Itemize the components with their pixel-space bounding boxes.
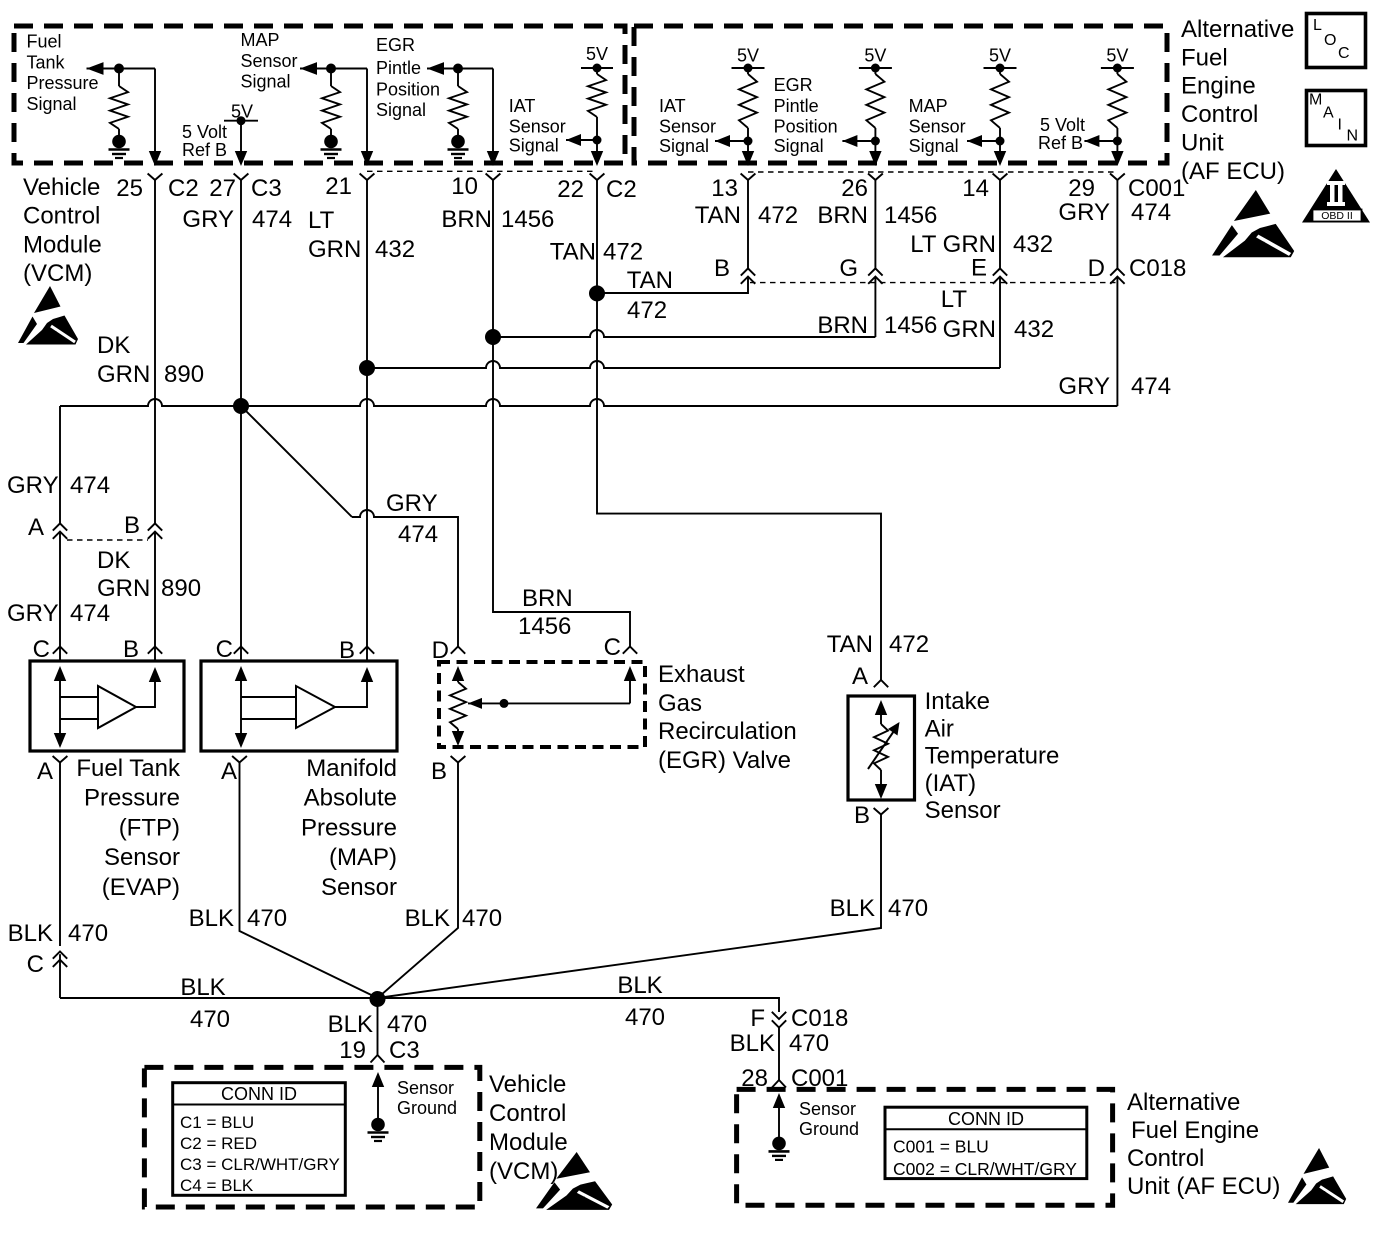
svg-text:Control: Control	[1181, 101, 1258, 128]
svg-text:Vehicle: Vehicle	[23, 174, 100, 201]
node GRY bus junction	[233, 398, 249, 414]
wire GRY bus left end down to inline connector A	[59, 406, 61, 523]
svg-text:A: A	[852, 663, 868, 690]
svg-text:TAN: TAN	[827, 631, 873, 658]
wire GRY diagonal from bus to EGR valve pin D (hop at 367)	[241, 406, 352, 517]
EGR valve dashed box	[439, 662, 645, 747]
svg-text:BRN: BRN	[817, 202, 868, 229]
svg-text:BLK: BLK	[730, 1030, 775, 1057]
AF ECU internal circuitry box (top)	[634, 26, 1167, 163]
svg-text:Position: Position	[774, 117, 838, 137]
node TAN branch	[589, 285, 605, 301]
ESD symbol (AF ECU bottom)	[1288, 1148, 1346, 1204]
svg-text:E: E	[971, 255, 987, 282]
svg-text:470: 470	[462, 905, 502, 932]
svg-text:27: 27	[209, 175, 236, 202]
wire: MAP signal down to pin 21	[366, 69, 368, 153]
svg-text:C2 = RED: C2 = RED	[180, 1134, 257, 1153]
ground (MAP resistor)	[324, 135, 338, 149]
VCM bottom dashed box	[144, 1067, 479, 1207]
svg-text:Sensor: Sensor	[321, 874, 397, 901]
svg-text:1456: 1456	[884, 312, 937, 339]
resistor: FTP pull-down	[118, 69, 120, 87]
FTP signal arrow into VCM	[87, 62, 104, 75]
wire GRY connector A to FTP pin C	[59, 532, 61, 661]
svg-text:472: 472	[889, 631, 929, 658]
svg-text:474: 474	[252, 206, 292, 233]
LOC legend box	[1307, 14, 1366, 68]
wire AF ECU 29 to connector D	[1116, 180, 1118, 269]
svg-text:Sensor: Sensor	[104, 844, 180, 871]
wire LT GRN from node to connector E (hops at 493,597)	[999, 277, 1001, 368]
lambda connector 19/C3	[371, 1055, 385, 1063]
svg-text:C3 = CLR/WHT/GRY: C3 = CLR/WHT/GRY	[180, 1155, 340, 1174]
FTP internal: down arrow to pin A	[59, 719, 61, 734]
svg-text:1456: 1456	[518, 613, 571, 640]
svg-text:Sensor: Sensor	[925, 797, 1001, 824]
svg-text:Ref B: Ref B	[182, 140, 227, 160]
svg-text:470: 470	[789, 1030, 829, 1057]
svg-text:B: B	[714, 255, 730, 282]
svg-text:474: 474	[1131, 373, 1171, 400]
svg-text:5V: 5V	[989, 45, 1011, 65]
svg-text:A: A	[221, 758, 237, 785]
svg-text:474: 474	[398, 521, 438, 548]
main GRY 474 bus from x=60 to connector D (hops at 155,367,493,597)	[1116, 277, 1118, 406]
svg-text:Signal: Signal	[909, 136, 959, 156]
wire 10/BRN down	[492, 180, 494, 338]
svg-text:Sensor: Sensor	[397, 1078, 454, 1098]
svg-text:Sensor: Sensor	[659, 117, 716, 137]
FTP internal: op-amp	[98, 686, 136, 728]
svg-text:MAP: MAP	[909, 96, 948, 116]
ground (FTP resistor)	[112, 135, 126, 149]
svg-text:GRN: GRN	[97, 575, 150, 602]
svg-text:GRY: GRY	[7, 600, 59, 627]
svg-text:Sensor: Sensor	[799, 1099, 856, 1119]
IAT internal: thermistor	[875, 700, 887, 715]
svg-text:470: 470	[247, 905, 287, 932]
wire FTP pin A down	[59, 763, 61, 947]
wire BRN below branch, over to EGR pin C	[493, 337, 630, 647]
svg-text:Alternative: Alternative	[1181, 16, 1294, 43]
svg-text:26: 26	[841, 175, 868, 202]
svg-text:Position: Position	[376, 79, 440, 99]
IAT sensor box	[848, 696, 915, 800]
svg-text:472: 472	[758, 202, 798, 229]
svg-text:BRN: BRN	[522, 585, 573, 612]
svg-text:(FTP): (FTP)	[119, 814, 180, 841]
wire TAN from node to connector B	[597, 277, 748, 293]
svg-text:L: L	[1313, 17, 1322, 34]
FTP sensor box	[30, 661, 184, 751]
svg-text:Signal: Signal	[774, 136, 824, 156]
svg-text:C4 = BLK: C4 = BLK	[180, 1176, 254, 1195]
CONN ID table (VCM)	[173, 1083, 346, 1196]
svg-text:19: 19	[339, 1037, 366, 1064]
svg-text:Fuel Engine: Fuel Engine	[1131, 1117, 1259, 1144]
svg-text:C: C	[33, 636, 50, 663]
node: MAP pull-down junction	[326, 64, 336, 74]
MAP internal: op-amp	[296, 686, 335, 728]
svg-text:C: C	[1338, 45, 1350, 62]
svg-text:A: A	[37, 758, 53, 785]
svg-text:(AF ECU): (AF ECU)	[1181, 158, 1285, 185]
bus continues right to AF ECU	[378, 998, 780, 1012]
svg-text:Signal: Signal	[659, 136, 709, 156]
svg-text:DK: DK	[97, 332, 130, 359]
svg-text:Manifold: Manifold	[306, 755, 397, 782]
svg-text:432: 432	[1014, 316, 1054, 343]
svg-text:GRY: GRY	[1058, 199, 1110, 226]
svg-text:GRN: GRN	[308, 236, 361, 263]
resistor: IAT pull-up	[596, 68, 598, 74]
svg-text:BLK: BLK	[405, 905, 450, 932]
wire 22/TAN down	[596, 180, 598, 294]
FTP internal: output to pin B	[136, 681, 155, 707]
svg-text:Sensor: Sensor	[909, 117, 966, 137]
svg-text:Air: Air	[925, 715, 954, 742]
MAP internal: pin C input w/ up arrow	[235, 666, 247, 681]
svg-text:A: A	[1323, 105, 1334, 122]
wire 21/LT GRN down	[366, 180, 368, 369]
svg-text:B: B	[123, 636, 139, 663]
svg-text:Intake: Intake	[925, 688, 990, 715]
VCM internal circuitry box (top)	[14, 26, 625, 163]
svg-text:BLK: BLK	[617, 972, 662, 999]
svg-text:LT: LT	[308, 207, 335, 234]
resistor: EGR pull-down	[457, 69, 459, 87]
svg-text:Unit (AF ECU): Unit (AF ECU)	[1127, 1173, 1280, 1200]
wire IAT pin B down to junction	[378, 815, 882, 999]
svg-text:470: 470	[190, 1006, 230, 1033]
svg-text:CONN ID: CONN ID	[221, 1084, 297, 1104]
svg-text:D: D	[432, 637, 449, 664]
node: ground junction	[370, 991, 386, 1007]
svg-text:D: D	[1088, 255, 1105, 282]
wire 25/DK GRN down to inline connector B	[154, 180, 156, 524]
EGR internal: pin C up arrow, wiper	[624, 666, 636, 681]
svg-text:474: 474	[70, 600, 110, 627]
wire AF ECU 13 to connector B	[747, 180, 749, 269]
svg-text:Sensor: Sensor	[509, 116, 566, 136]
MAP internal: output to pin B	[335, 681, 367, 707]
svg-text:Recirculation: Recirculation	[658, 718, 797, 745]
svg-text:EGR: EGR	[774, 75, 813, 95]
svg-text:13: 13	[711, 175, 738, 202]
wire 27/GRY down to bus	[240, 180, 242, 407]
svg-text:OBD II: OBD II	[1321, 210, 1353, 222]
svg-text:DK: DK	[97, 547, 130, 574]
svg-text:Fuel Tank: Fuel Tank	[76, 755, 181, 782]
svg-text:Control: Control	[1127, 1145, 1204, 1172]
thin dashed connector line C2 (VCM)	[367, 170, 597, 172]
node: FTP pull-down junction	[114, 64, 124, 74]
svg-text:C: C	[27, 951, 44, 978]
svg-text:B: B	[124, 512, 140, 539]
svg-text:(VCM): (VCM)	[489, 1158, 558, 1185]
wire AF ECU 14 to connector E	[999, 180, 1001, 269]
svg-text:5 Volt: 5 Volt	[182, 122, 227, 142]
svg-text:Temperature: Temperature	[925, 743, 1060, 770]
wire: EGR signal down to pin 10	[492, 69, 494, 153]
svg-text:GRY: GRY	[7, 472, 59, 499]
svg-text:Gas: Gas	[658, 690, 702, 717]
wire TAN below branch, over to IAT pin A	[597, 293, 881, 680]
svg-text:(EGR) Valve: (EGR) Valve	[658, 747, 791, 774]
ESD symbol (VCM bottom)	[536, 1152, 612, 1210]
svg-text:C: C	[604, 634, 621, 661]
svg-text:Pressure: Pressure	[301, 814, 397, 841]
svg-text:O: O	[1324, 32, 1336, 49]
svg-text:GRN: GRN	[97, 361, 150, 388]
thin dashed connector line C001 (AF ECU)	[748, 171, 1117, 173]
svg-text:21: 21	[325, 173, 352, 200]
wire: FTP signal down to pin 25	[154, 69, 156, 153]
OBD II triangle symbol	[1302, 169, 1370, 223]
node: EGR pull-down junction	[453, 64, 463, 74]
svg-text:470: 470	[625, 1004, 665, 1031]
svg-text:C3: C3	[251, 175, 282, 202]
IAT signal arrow	[566, 134, 581, 146]
FTP internal: pin C input w/ up arrow	[54, 666, 66, 681]
svg-text:Control: Control	[489, 1100, 566, 1127]
svg-text:470: 470	[387, 1011, 427, 1038]
EGR internal: pin D up arrow + resistor	[452, 666, 464, 681]
svg-text:B: B	[431, 758, 447, 785]
svg-text:GRY: GRY	[182, 206, 234, 233]
svg-text:BLK: BLK	[830, 895, 875, 922]
svg-text:A: A	[28, 514, 44, 541]
svg-text:470: 470	[68, 920, 108, 947]
svg-text:B: B	[854, 802, 870, 829]
MAIN legend box	[1307, 91, 1366, 146]
svg-text:Pintle: Pintle	[774, 96, 819, 116]
svg-text:(VCM): (VCM)	[23, 260, 92, 287]
resistor: MAP pull-down	[330, 69, 332, 87]
svg-text:5V: 5V	[864, 45, 886, 65]
node LT GRN branch	[359, 360, 375, 376]
svg-text:1456: 1456	[501, 206, 554, 233]
svg-text:890: 890	[164, 361, 204, 388]
svg-text:C018: C018	[791, 1005, 848, 1032]
CONN ID table (AF ECU)	[885, 1107, 1087, 1178]
MAP signal arrow	[300, 62, 317, 75]
EGR signal arrow	[427, 62, 444, 75]
svg-text:Unit: Unit	[1181, 130, 1224, 157]
svg-text:Ground: Ground	[799, 1119, 859, 1139]
svg-text:C2: C2	[168, 175, 199, 202]
svg-text:Pintle: Pintle	[376, 58, 421, 78]
svg-text:Exhaust: Exhaust	[658, 661, 745, 688]
svg-text:474: 474	[1131, 199, 1171, 226]
svg-text:Sensor: Sensor	[241, 51, 298, 71]
svg-text:BLK: BLK	[180, 974, 225, 1001]
svg-text:890: 890	[161, 575, 201, 602]
svg-text:474: 474	[70, 472, 110, 499]
svg-text:BRN: BRN	[817, 312, 868, 339]
svg-text:Module: Module	[489, 1129, 568, 1156]
svg-text:C3: C3	[389, 1037, 420, 1064]
svg-text:C001: C001	[1128, 175, 1185, 202]
svg-text:432: 432	[1013, 231, 1053, 258]
svg-text:C: C	[216, 636, 233, 663]
svg-text:C2: C2	[606, 176, 637, 203]
svg-text:N: N	[1347, 128, 1359, 145]
wire junction down to VCM pin 19	[377, 998, 379, 1055]
inline connector F (C018, down chevrons)	[772, 1012, 786, 1019]
svg-text:BRN: BRN	[441, 206, 492, 233]
svg-text:I: I	[1338, 117, 1342, 134]
svg-text:Pressure: Pressure	[84, 785, 180, 812]
svg-text:Signal: Signal	[509, 135, 559, 155]
svg-text:C001 = BLU: C001 = BLU	[893, 1137, 989, 1157]
svg-text:Pressure: Pressure	[27, 73, 99, 93]
svg-text:Signal: Signal	[27, 94, 77, 114]
svg-text:TAN: TAN	[627, 267, 673, 294]
svg-text:5V: 5V	[586, 44, 608, 64]
svg-text:Tank: Tank	[27, 52, 66, 72]
wire GRY below bus to MAP pin C	[240, 406, 242, 661]
svg-text:22: 22	[557, 176, 584, 203]
svg-text:GRY: GRY	[386, 490, 438, 517]
svg-text:Absolute: Absolute	[304, 785, 397, 812]
sensor ground (VCM)	[372, 1072, 384, 1087]
svg-text:M: M	[1309, 92, 1322, 109]
svg-text:BLK: BLK	[328, 1011, 373, 1038]
svg-text:(MAP): (MAP)	[329, 844, 397, 871]
svg-text:472: 472	[603, 239, 643, 266]
bottom BLK 470 bus	[60, 997, 378, 999]
svg-text:TAN: TAN	[550, 239, 596, 266]
svg-text:IAT: IAT	[659, 96, 686, 116]
svg-text:5 Volt: 5 Volt	[1040, 115, 1085, 135]
svg-text:Signal: Signal	[376, 100, 426, 120]
svg-text:472: 472	[627, 297, 667, 324]
ESD symbol (VCM top)	[18, 286, 78, 345]
svg-text:Fuel: Fuel	[27, 32, 62, 52]
wire DK GRN connector B to FTP pin B	[154, 532, 156, 661]
svg-text:14: 14	[962, 175, 989, 202]
svg-text:(EVAP): (EVAP)	[102, 874, 180, 901]
svg-text:10: 10	[451, 173, 478, 200]
dashed line connector A-B	[67, 539, 148, 541]
svg-text:LT: LT	[941, 286, 968, 313]
svg-text:CONN ID: CONN ID	[948, 1109, 1024, 1129]
wire: IAT signal down to pin 22	[596, 140, 598, 152]
svg-text:Vehicle: Vehicle	[489, 1071, 566, 1098]
node BRN branch	[485, 329, 501, 345]
svg-text:1456: 1456	[884, 202, 937, 229]
svg-text:BLK: BLK	[189, 905, 234, 932]
wire LT GRN below branch to MAP pin B	[366, 368, 368, 661]
svg-text:EGR: EGR	[376, 35, 415, 55]
svg-text:29: 29	[1068, 175, 1095, 202]
svg-text:TAN: TAN	[695, 202, 741, 229]
svg-text:5V: 5V	[737, 45, 759, 65]
svg-text:25: 25	[116, 175, 143, 202]
MAP sensor box	[201, 661, 397, 751]
svg-text:Engine: Engine	[1181, 73, 1256, 100]
svg-text:432: 432	[375, 236, 415, 263]
wire F to pin 28	[778, 1028, 780, 1081]
sensor ground (AF ECU)	[773, 1093, 785, 1108]
wire EGR pin B down to junction	[378, 763, 459, 999]
svg-text:G: G	[839, 255, 858, 282]
svg-text:IAT: IAT	[509, 96, 536, 116]
svg-text:MAP: MAP	[241, 30, 280, 50]
svg-text:C018: C018	[1129, 255, 1186, 282]
svg-text:470: 470	[888, 895, 928, 922]
wire AF ECU 26 to connector G	[874, 180, 876, 269]
svg-text:Ground: Ground	[397, 1098, 457, 1118]
svg-text:5V: 5V	[1106, 45, 1128, 65]
svg-text:GRN: GRN	[943, 316, 996, 343]
svg-text:Signal: Signal	[241, 72, 291, 92]
wire MAP pin A down to junction	[240, 763, 378, 999]
svg-text:Control: Control	[23, 203, 100, 230]
MAP internal: down arrow to pin A	[240, 719, 242, 734]
AF ECU bottom dashed box	[737, 1089, 1113, 1205]
svg-text:Fuel: Fuel	[1181, 44, 1228, 71]
ESD symbol (AF ECU top)	[1212, 190, 1294, 257]
svg-text:GRY: GRY	[1058, 373, 1110, 400]
wire: 5V ref B down to pin 27	[240, 121, 242, 152]
svg-text:Alternative: Alternative	[1127, 1089, 1240, 1116]
svg-text:C002 = CLR/WHT/GRY: C002 = CLR/WHT/GRY	[893, 1159, 1077, 1179]
svg-text:BLK: BLK	[8, 920, 53, 947]
svg-text:(IAT): (IAT)	[925, 770, 977, 797]
wire BRN from node to connector G (hop at 597)	[874, 277, 876, 337]
dashed line connector C018	[750, 282, 1116, 284]
ground (EGR resistor)	[451, 135, 465, 149]
svg-text:Module: Module	[23, 231, 102, 258]
svg-text:Ref B: Ref B	[1038, 133, 1083, 153]
svg-text:F: F	[750, 1005, 765, 1032]
svg-text:C1 = BLU: C1 = BLU	[180, 1113, 254, 1132]
